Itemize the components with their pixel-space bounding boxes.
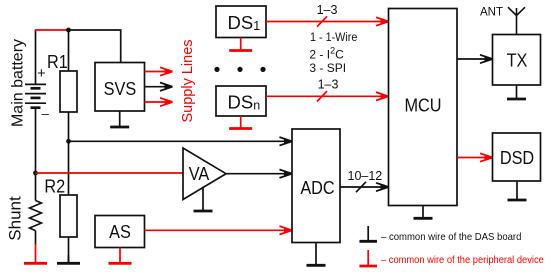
ground below MCU	[422, 206, 424, 218]
svg-text:AS: AS	[109, 221, 131, 242]
svg-text:DSD: DSD	[500, 147, 534, 168]
svg-text:– common wire of the periphera: – common wire of the peripheral device	[381, 254, 544, 266]
ground (red, peripheral) below shunt	[35, 244, 37, 262]
svg-text:ANT: ANT	[480, 6, 503, 18]
resistor R1	[60, 71, 77, 112]
legend: ground symbol DAS board (black)	[367, 226, 369, 240]
svg-text:TX: TX	[507, 50, 528, 71]
wire: R1 bottom lead to node and on to R2	[68, 112, 70, 195]
ground below TX	[516, 85, 518, 98]
resistor Shunt (zigzag)	[30, 201, 42, 231]
wire: battery positive lead up to top rail	[35, 30, 37, 85]
svg-text:R1: R1	[47, 51, 68, 72]
bus slash on DS1 bus	[317, 16, 327, 26]
wire: AS output to ADC (red)	[145, 229, 292, 231]
svg-text:1–3: 1–3	[317, 3, 338, 17]
svg-text:Main battery: Main battery	[10, 39, 27, 127]
svg-text:10–12: 10–12	[348, 169, 383, 183]
battery B1 (Main battery)	[25, 84, 46, 107]
wire: top rail black segment node to SVS input	[69, 30, 121, 63]
legend: ground symbol peripheral device (red)	[367, 250, 369, 265]
ground below VA	[202, 187, 204, 211]
op-amp VA (voltage amplifier)	[183, 148, 226, 200]
block ADC	[292, 129, 340, 243]
wire: MCU to TX (black)	[457, 58, 492, 60]
svg-text:ADC: ADC	[300, 177, 334, 198]
wire: top rail red segment battery to node	[35, 29, 69, 31]
svg-text:1 - 1-Wire: 1 - 1-Wire	[310, 32, 357, 45]
node: ellipsis dots between DS1 and DSn	[214, 67, 265, 72]
wire: DSn digital bus to MCU (red)	[266, 95, 388, 97]
svg-text:MCU: MCU	[404, 95, 441, 116]
svg-text:3 - SPI: 3 - SPI	[309, 61, 346, 75]
wire: DS1 digital bus to MCU (red)	[266, 21, 388, 23]
node: junction dot top rail / R1	[66, 28, 71, 33]
svg-text:– common wire of the DAS board: – common wire of the DAS board	[381, 231, 521, 243]
svg-text:SVS: SVS	[104, 78, 137, 99]
node: junction dot battery line / VA red tap	[33, 171, 38, 176]
wire: SVS supply output arrow 1 (red)	[145, 71, 172, 73]
block TX (radio transmitter)	[493, 35, 541, 86]
block DS1 (digital sensor 1)	[216, 6, 266, 38]
block MCU	[389, 9, 458, 206]
antenna ANT symbol	[508, 7, 525, 34]
ground (black, DAS board) below R2	[68, 255, 70, 262]
block SVS (supply voltage supervisor)	[95, 63, 145, 112]
block DSn (digital sensor n)	[216, 86, 266, 116]
ground below SVS	[119, 111, 121, 126]
wire: R2 bottom lead	[68, 237, 70, 262]
resistor R2	[60, 195, 77, 237]
wire: red tap battery line to VA input	[36, 172, 184, 174]
bus slash on ADC bus	[356, 182, 366, 192]
svg-text:VA: VA	[189, 163, 210, 184]
node: junction dot R1 bottom / ADC line	[66, 139, 71, 144]
wire: ADC data bus to MCU (black)	[340, 186, 388, 188]
svg-text:+: +	[37, 66, 45, 82]
svg-text:–: –	[42, 106, 50, 121]
block AS (analog sensor)	[95, 216, 145, 248]
ground (red, peripheral) below AS	[119, 248, 121, 263]
block DSD (display)	[493, 133, 541, 181]
bus slash on DSn bus	[317, 91, 327, 101]
wire: R1 top lead	[68, 30, 70, 71]
wire: SVS supply output arrow 2 (black)	[145, 86, 172, 88]
wire: VA output to ADC (black)	[226, 173, 291, 175]
wire: node to ADC input (black) with arrow	[69, 140, 292, 142]
svg-text:R2: R2	[44, 176, 65, 197]
svg-text:2 - I2C: 2 - I2C	[309, 46, 344, 62]
wire: shunt bottom lead	[35, 231, 37, 245]
wire: battery negative lead down to shunt	[35, 108, 37, 201]
wire: MCU to DSD (red)	[457, 157, 492, 159]
wire: SVS supply output arrow 3 (red)	[145, 101, 172, 103]
svg-text:Supply Lines: Supply Lines	[180, 39, 196, 122]
svg-text:1–3: 1–3	[318, 78, 339, 92]
ground below DSD	[516, 181, 518, 199]
ground below ADC	[315, 243, 317, 265]
ground (red, peripheral) below DS1	[240, 38, 242, 50]
svg-text:Shunt: Shunt	[5, 196, 24, 241]
ground (red, peripheral) below DSn	[240, 116, 242, 128]
